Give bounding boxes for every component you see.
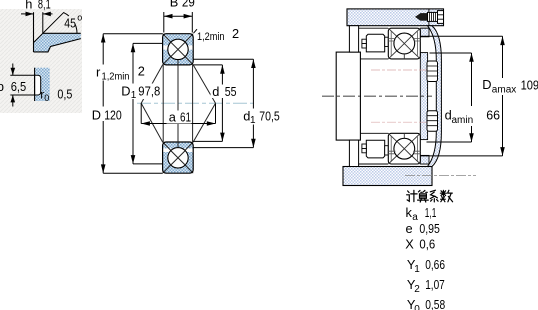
svg-text:0,95: 0,95	[419, 221, 440, 236]
svg-text:109: 109	[521, 77, 538, 92]
dimension D 120	[103, 34, 162, 174]
main view: bottom section contact X lines	[163, 142, 194, 173]
svg-text:2: 2	[232, 26, 239, 41]
main view: bottom ball	[168, 148, 188, 168]
mounted view: housing top band	[347, 9, 444, 26]
svg-text:X: X	[405, 237, 414, 252]
chamfer detail: vertical face + extension line	[33, 12, 35, 52]
svg-text:1,2min: 1,2min	[102, 71, 130, 82]
svg-text:1: 1	[414, 264, 420, 275]
dimension d 55	[193, 65, 222, 141]
svg-text:70,5: 70,5	[259, 108, 280, 123]
mounted view: seal ring top side clips	[362, 39, 366, 43]
mounted view: housing bore lines bottom	[357, 163, 429, 165]
svg-text:8,1: 8,1	[38, 0, 51, 12]
main view: top section ring blue	[163, 34, 194, 65]
svg-text:29: 29	[182, 0, 195, 10]
svg-text:0,6: 0,6	[419, 237, 435, 252]
svg-text:a: a	[169, 110, 177, 125]
chamfer detail: ring section blue fill	[34, 33, 81, 52]
mounted view: housing block edge behind nipple	[428, 9, 430, 26]
svg-text:0,5: 0,5	[57, 87, 72, 102]
groove detail: b dimension lines	[10, 75, 34, 95]
label r 1,2min 2 (left)	[95, 65, 133, 81]
svg-text:h: h	[25, 0, 32, 12]
svg-text:D: D	[482, 77, 491, 92]
mounted view: seal ring bottom body	[366, 140, 384, 158]
dimension D1 97,8	[133, 43, 163, 163]
main view: centerline horizontal (light blue)	[137, 102, 257, 104]
mounted view: seal ring top body	[366, 34, 384, 52]
svg-text:o: o	[77, 12, 82, 22]
main view: top ball X	[171, 42, 185, 56]
mounted view: shaft seat lines	[360, 59, 388, 133]
main view: top section outline	[163, 34, 194, 65]
dimension B 29	[164, 12, 193, 33]
groove detail: ring blue fill	[35, 68, 50, 101]
dimension Damax 109	[421, 36, 503, 156]
mounted view: bearing top section	[388, 28, 420, 59]
main view: bottom ball X	[171, 151, 185, 165]
mounted view: bearing inner detail lines	[388, 38, 420, 41]
table: title 计算系数 (drawn glyphs)	[407, 190, 453, 202]
mounted view: shaft shoulder	[336, 52, 360, 140]
main view: contact V lines left	[141, 65, 162, 142]
chamfer detail: 45 deg line	[34, 12, 65, 42]
mounted view: grease nipple	[415, 13, 421, 21]
dimension damin 66	[427, 53, 472, 142]
chamfer detail: h extension line right	[42, 12, 44, 33]
mounted view: housing right wall	[428, 26, 442, 167]
main view: top ball	[168, 39, 188, 59]
svg-text:D: D	[121, 83, 130, 98]
mounted view: housing bottom band	[343, 167, 432, 186]
svg-text:45: 45	[64, 15, 76, 30]
svg-text:1,07: 1,07	[425, 277, 445, 292]
mounted view: seal ring bottom side clips	[362, 149, 366, 153]
mounted view: seat lines (red dash)	[371, 69, 427, 71]
main view: side face verticals between sections	[163, 65, 192, 142]
mounted view: bottom band bolt centerline	[405, 175, 476, 177]
svg-text:66: 66	[486, 107, 500, 122]
groove detail: b arrows	[12, 64, 14, 76]
svg-text:amin: amin	[452, 115, 474, 126]
svg-text:d: d	[212, 84, 219, 99]
main view: ball axis vertical	[177, 60, 179, 148]
chamfer detail: h dimension arrows	[21, 13, 34, 15]
main view: top section raceway gap	[163, 45, 193, 49]
svg-text:1,1: 1,1	[425, 205, 437, 220]
mounted view: cover plate (hatched)	[420, 53, 427, 140]
mounted view: flinger bottom	[349, 140, 358, 166]
chamfer detail: angle arc	[64, 13, 77, 34]
groove detail: recess notch (white)	[35, 75, 41, 95]
svg-text:2: 2	[414, 284, 420, 295]
mounted view: cover nose bottom	[420, 155, 429, 164]
mounted view: cover nose top	[420, 28, 429, 37]
svg-text:e: e	[406, 221, 413, 236]
groove detail: left face line	[34, 68, 36, 101]
svg-text:1: 1	[131, 90, 137, 101]
dimension r 1,2min top right: corner tick	[194, 29, 198, 33]
mounted view: housing bore lines top	[357, 27, 429, 29]
svg-text:97,8: 97,8	[138, 83, 160, 98]
mounted view: bearing bottom section	[388, 133, 420, 164]
svg-text:2: 2	[138, 64, 145, 79]
svg-text:55: 55	[225, 84, 237, 99]
svg-text:0,58: 0,58	[425, 297, 445, 310]
svg-text:0: 0	[44, 93, 49, 103]
svg-text:B: B	[170, 0, 179, 10]
svg-text:6,5: 6,5	[11, 79, 27, 94]
main view: bottom section ring blue	[163, 142, 194, 173]
dimension a 61	[141, 103, 215, 123]
main view: contact V lines right	[193, 65, 215, 142]
svg-text:120: 120	[104, 107, 122, 122]
svg-text:b: b	[0, 79, 4, 94]
mounted view: cover bolt bottom	[427, 111, 438, 132]
svg-text:D: D	[92, 107, 101, 122]
svg-text:0,66: 0,66	[425, 257, 445, 272]
background box detail area	[0, 9, 82, 113]
svg-text:1,2min: 1,2min	[197, 31, 225, 43]
dimension d1 70,5	[193, 59, 253, 147]
svg-text:61: 61	[180, 110, 191, 125]
mounted view: cover bolt top	[427, 61, 438, 82]
svg-text:1: 1	[250, 115, 256, 126]
svg-text:0: 0	[414, 304, 420, 310]
mounted view: flinger top	[349, 26, 358, 52]
chamfer detail: outline	[34, 33, 81, 52]
mounted view: shaft centerline	[322, 95, 432, 97]
svg-text:a: a	[412, 212, 418, 223]
main view: bottom section outline	[163, 142, 194, 173]
main view: bottom section raceway gap	[163, 148, 193, 152]
svg-text:r: r	[96, 65, 101, 80]
svg-text:amax: amax	[492, 84, 516, 95]
main view: top section contact X lines	[163, 34, 194, 65]
